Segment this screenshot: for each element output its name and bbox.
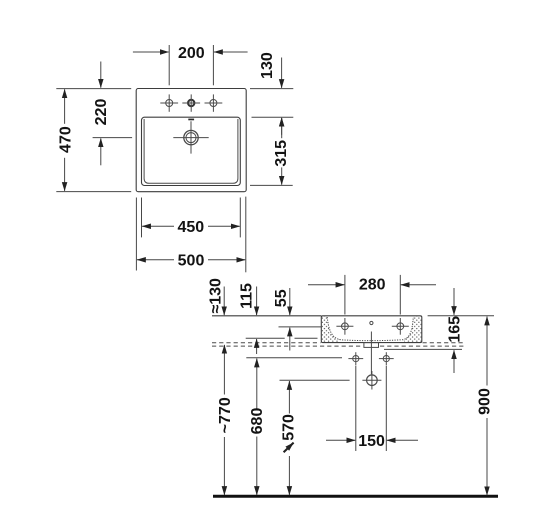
dimension 500 (overall width)	[136, 197, 245, 273]
165 siphon level line	[384, 348, 462, 350]
small NE arrow of 570	[284, 443, 294, 453]
wall fixing hole right	[379, 352, 394, 365]
dimension 570 (floor to siphon)	[288, 381, 290, 495]
svg-text:115: 115	[239, 283, 256, 309]
basin bowl rim (plan outer)	[142, 117, 241, 185]
siphon drain circle (elevation)	[362, 371, 381, 390]
svg-text:500: 500	[178, 252, 205, 269]
svg-text:470: 470	[57, 126, 74, 153]
svg-text:~770: ~770	[217, 397, 234, 433]
dimension 115	[256, 287, 258, 355]
dimension 220 (rear edge to drain, left)	[93, 62, 133, 166]
hidden bottom edge dashed (right)	[423, 342, 465, 344]
svg-text:≈130: ≈130	[208, 278, 225, 314]
svg-text:220: 220	[93, 99, 110, 126]
svg-text:200: 200	[178, 45, 205, 62]
dimension 470 (overall depth, far left)	[56, 89, 131, 192]
svg-text:55: 55	[273, 289, 290, 307]
tap hole centre (ring)	[182, 94, 200, 111]
svg-text:900: 900	[477, 388, 494, 415]
dimension 280 (towel-rail holes spacing)	[308, 275, 436, 315]
115 reference line	[246, 337, 285, 339]
dimension 130 (rear edge to bowl, right top)	[250, 58, 293, 135]
rim level line (left of basin)	[212, 315, 321, 317]
dimension 55	[289, 288, 291, 351]
tap hole right	[205, 94, 223, 111]
55 reference line	[279, 326, 322, 328]
drain (plan)	[173, 121, 208, 153]
dimension 200 (tap holes spacing)	[133, 45, 248, 85]
towel-rail hole right (elevation)	[392, 318, 409, 335]
svg-text:130: 130	[259, 52, 276, 79]
basin body (elevation)	[322, 316, 341, 342]
basin outer outline (plan)	[136, 89, 246, 192]
overflow slot mark	[188, 119, 194, 121]
dimension 165 (rim to siphon line)	[453, 288, 455, 373]
wall fixing hole left	[348, 352, 363, 365]
dimension ~130 (rim to fixing level)	[223, 287, 225, 316]
tap hole left	[160, 94, 178, 111]
basin bowl bottom (plan inner)	[144, 119, 238, 183]
floor line	[213, 495, 498, 498]
130 level dashed line (left)	[212, 345, 363, 347]
dimension ~770 (floor to fixing level)	[223, 345, 225, 495]
dimension 900 (floor to rim)	[486, 317, 488, 496]
dimension 150 (fixing holes spacing)	[326, 366, 418, 452]
svg-text:570: 570	[280, 414, 297, 441]
570 level line	[280, 379, 350, 381]
dimension 315 (bowl depth, right)	[250, 118, 293, 185]
centre axis below notch	[370, 332, 372, 375]
svg-text:315: 315	[273, 140, 290, 167]
towel-rail hole left (elevation)	[336, 318, 353, 335]
130 level dashed line (right)	[380, 345, 464, 347]
svg-text:450: 450	[177, 219, 204, 236]
hidden bottom edge dashed (left)	[212, 342, 321, 344]
drain outlet notch	[364, 343, 379, 348]
small middle hole (elevation)	[370, 321, 373, 324]
svg-text:280: 280	[359, 277, 386, 294]
svg-text:150: 150	[358, 433, 385, 450]
svg-text:165: 165	[447, 316, 464, 343]
dimension 680 (floor to fixing holes)	[256, 359, 258, 496]
680 level line	[246, 357, 342, 359]
rim level extension (right, for 900)	[428, 315, 494, 317]
svg-text:680: 680	[249, 408, 266, 435]
dimension 450 (bowl width)	[142, 198, 241, 238]
